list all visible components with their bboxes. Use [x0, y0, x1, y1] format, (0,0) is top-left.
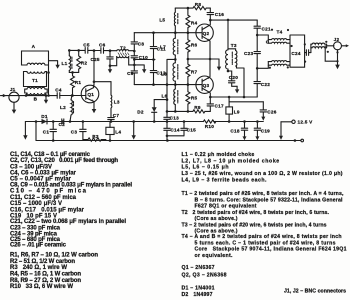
inductor L6: [162, 85, 178, 113]
svg-text:Core Stackpole 57 9074-11, I: Core Stackpole 57 9074-11, Indiana Gener…: [195, 247, 347, 253]
svg-text:L1 – 0.22 μh molded choke: L1 – 0.22 μh molded choke: [182, 152, 255, 158]
svg-text:L4, L9 – 3 ferrite beads each.: L4, L9 – 3 ferrite beads each.: [182, 177, 268, 183]
svg-text:T3 – 2 twisted pairs of #20 wi: T3 – 2 twisted pairs of #20 wire, 6 twis…: [182, 223, 327, 229]
svg-text:R2: R2: [81, 61, 88, 66]
capacitor C18: [230, 120, 247, 140]
svg-text:C8: C8: [138, 41, 145, 46]
transistor Q2: [196, 20, 213, 59]
transformer T2: [110, 45, 134, 65]
ground (C26 to feed): [261, 117, 265, 121]
transistor Q3: [196, 59, 213, 97]
svg-text:C6: C6: [99, 42, 106, 47]
capacitor C5: [79, 43, 94, 54]
wire (Q2 base line): [134, 32, 202, 34]
capacitor C22: [254, 68, 270, 97]
capacitor C15: [181, 120, 196, 136]
wire (bias step to choke rail): [167, 59, 175, 84]
svg-text:12.5 V: 12.5 V: [298, 120, 314, 125]
svg-text:A: A: [32, 44, 36, 49]
svg-text:D1: D1: [41, 114, 48, 119]
svg-text:D2: D2: [137, 109, 144, 114]
terminal (bus end): [294, 139, 304, 142]
connector J1: [1, 87, 20, 102]
svg-text:C14: C14: [170, 128, 179, 133]
wire (+12.5V feed line): [25, 121, 263, 123]
svg-text:Q1: Q1: [87, 92, 94, 97]
svg-text:R8, R9 – 27 Ω, 2 W carbon: R8, R9 – 27 Ω, 2 W carbon: [10, 278, 81, 284]
ground (mid feed): [132, 120, 136, 139]
svg-text:J2: J2: [334, 37, 340, 42]
inductor L8: [161, 59, 178, 85]
supply terminal 12.5 V: [279, 120, 313, 140]
wire (L9 feeder): [229, 97, 263, 102]
svg-text:L3: L3: [114, 100, 120, 105]
wire (bias rail): [166, 85, 168, 118]
inductor L2: [60, 94, 74, 123]
svg-text:L5, L6 – 0.15 μh: L5, L6 – 0.15 μh: [182, 165, 229, 171]
svg-text:B: B: [34, 97, 38, 102]
svg-text:D1 – 1N4001: D1 – 1N4001: [182, 286, 215, 292]
svg-text:C26: C26: [267, 110, 276, 115]
svg-text:C15 – 1000 μF/3 V: C15 – 1000 μF/3 V: [10, 201, 62, 207]
svg-text:R8: R8: [195, 2, 202, 7]
ground bus (bottom): [36, 140, 295, 142]
svg-text:L2: L2: [60, 105, 66, 110]
svg-text:5 turns each. C – 1 twisted p: 5 turns each. C – 1 twisted pair of #24 …: [195, 240, 336, 246]
svg-text:R5: R5: [191, 96, 198, 101]
svg-text:R10 33 Ω, 6 W wire W: R10 33 Ω, 6 W wire W: [10, 284, 73, 290]
wire (Q1 collector): [94, 51, 111, 85]
svg-text:Q2, Q3 – 2N6368: Q2, Q3 – 2N6368: [182, 273, 227, 279]
wire (L1/R2 top and bottom ties): [69, 50, 78, 72]
svg-text:Q2: Q2: [203, 31, 210, 36]
wire (T3 drop rail): [227, 20, 229, 50]
svg-text:T4: T4: [277, 30, 283, 35]
capacitor C1: [43, 120, 57, 142]
svg-text:C1: C1: [43, 129, 50, 134]
resistor R7: [186, 59, 198, 86]
svg-text:Q3: Q3: [203, 83, 210, 88]
ground (C10/C9 tap): [134, 65, 146, 73]
inductor T4-C output winding: [311, 41, 334, 53]
ground (C25/T2): [108, 64, 112, 73]
svg-text:C3 – 100 μF/3V: C3 – 100 μF/3V: [10, 164, 52, 170]
ground (feed line left end): [23, 122, 27, 140]
transformer T4: [257, 29, 306, 69]
capacitor C21: [254, 20, 271, 35]
svg-text:C8, C9 – 0.015 and 0.033 μF my: C8, C9 – 0.015 and 0.033 μF mylars in pa…: [10, 183, 132, 189]
svg-text:C21: C21: [262, 26, 271, 31]
resistor R9: [193, 105, 210, 113]
ground (A rail tap): [49, 61, 60, 69]
wire (left drop to bus): [35, 122, 37, 141]
ferrite bead choke L4: [106, 122, 122, 142]
svg-text:C26 – .01 μF ceramic: C26 – .01 μF ceramic: [10, 243, 67, 249]
ground (J1): [12, 102, 17, 114]
svg-text:T3: T3: [231, 43, 237, 48]
wire (Q3 base line): [134, 84, 202, 86]
capacitor C7: [108, 113, 120, 123]
wire (input line): [9, 95, 57, 97]
svg-text:R1: R1: [75, 80, 82, 85]
capacitor C14: [164, 122, 180, 136]
svg-text:C10 – 470 pF mica: C10 – 470 pF mica: [10, 189, 87, 195]
resistor R1: [71, 72, 82, 96]
resistor R2: [77, 50, 88, 72]
wire (bias mid tie): [134, 59, 155, 61]
svg-text:R1, R6, R7 – 10 Ω, 1/2 W carbo: R1, R6, R7 – 10 Ω, 1/2 W carbon: [10, 252, 98, 258]
svg-text:R4, R5 – 16 Ω, 1 W carbon: R4, R5 – 16 Ω, 1 W carbon: [10, 272, 81, 278]
capacitor C8: [131, 33, 144, 51]
svg-text:C21, C22 – two 0.068 μF mylars: C21, C22 – two 0.068 μF mylars in parall…: [10, 219, 126, 225]
svg-text:L1: L1: [62, 61, 68, 66]
wire (lower emitter/bias line): [167, 110, 193, 112]
capacitor C25: [90, 49, 113, 65]
svg-text:(Core as above.): (Core as above.): [195, 216, 238, 222]
wire (snubber top link): [210, 19, 257, 21]
svg-text:L3 – 25 t, #26 wire, wound on: L3 – 25 t, #26 wire, wound on a 100 Ω, 2…: [182, 171, 343, 177]
svg-text:T4 – A and B = 2 twisted pairs: T4 – A and B = 2 twisted pairs of #24 wi…: [182, 234, 342, 240]
capacitor C4: [55, 88, 72, 99]
svg-text:R10: R10: [205, 124, 214, 129]
resistor R4: [186, 7, 198, 34]
transistor Q1: [81, 85, 99, 103]
svg-text:or equivalent.: or equivalent.: [195, 253, 234, 259]
capacitor C12: [150, 60, 166, 86]
svg-text:R6: R6: [191, 43, 198, 48]
svg-text:B – 8 turns. Core: Stackpole: B – 8 turns. Core: Stackpole 57 9322-11,…: [195, 197, 344, 203]
transformer T1 winding B: [25, 87, 48, 101]
svg-text:L2, L7, L8 – 10 μh molded chok: L2, L7, L8 – 10 μh molded choke: [182, 158, 280, 164]
diode D1: [41, 114, 48, 124]
ferrite bead choke L9: [226, 102, 240, 123]
wire (T1 right rail): [48, 51, 50, 96]
capacitor C13: [164, 115, 179, 122]
svg-text:R9: R9: [194, 105, 201, 110]
ground (Q1 emitter): [92, 101, 97, 113]
resistor R5: [186, 85, 198, 113]
svg-text:R2 – 51 Ω, 1/2 W carbon: R2 – 51 Ω, 1/2 W carbon: [10, 259, 75, 265]
svg-text:F627 8Q1 or equivalent: F627 8Q1 or equivalent: [195, 204, 257, 210]
svg-text:Q1 – 2N6367: Q1 – 2N6367: [182, 265, 215, 271]
transformer T1 winding A loop: [22, 44, 49, 65]
capacitor C17: [207, 96, 224, 112]
ground (T1 B right): [44, 96, 48, 104]
svg-text:R3 240 Ω, 1 wire W: R3 240 Ω, 1 wire W: [10, 265, 67, 271]
svg-text:C22: C22: [261, 82, 270, 87]
capacitor C23: [244, 34, 260, 70]
svg-text:C13: C13: [170, 115, 179, 120]
svg-text:T1 – 2 twisted pairs of #26 wi: T1 – 2 twisted pairs of #26 wire, 8 twis…: [182, 191, 345, 197]
svg-text:J1, J2 – BNC connectors: J1, J2 – BNC connectors: [284, 288, 346, 294]
ground (J2): [325, 46, 340, 70]
svg-text:L9: L9: [234, 109, 240, 114]
ground (C20): [235, 86, 239, 93]
svg-text:C18: C18: [230, 129, 239, 134]
capacitor C16: [207, 8, 224, 21]
svg-text:C25: C25: [90, 57, 99, 62]
svg-text:L8: L8: [161, 71, 167, 76]
transformer T3: [226, 43, 246, 98]
svg-text:L5: L5: [159, 18, 165, 23]
svg-text:R7: R7: [191, 70, 198, 75]
capacitor C19: [254, 120, 270, 140]
transformer T1 primary winding: [24, 72, 47, 87]
svg-text:C5: C5: [83, 43, 90, 48]
wire (Q3 collector link): [210, 96, 257, 98]
svg-text:C23: C23: [244, 51, 253, 56]
connector J2: [334, 37, 350, 50]
resistor R8: [175, 2, 210, 10]
svg-text:C1, C14, C18 – 0.1 μF ceramic: C1, C14, C18 – 0.1 μF ceramic: [10, 152, 91, 158]
diode D2: [137, 98, 168, 123]
svg-text:L4: L4: [115, 129, 121, 134]
svg-text:T2 2 twisted pairs of #24 wi: T2 2 twisted pairs of #24 wire, 8 twists…: [182, 210, 330, 216]
resistor R3: [83, 134, 106, 142]
wire (C14/C15 tie to bus): [167, 136, 184, 141]
svg-text:C3: C3: [71, 129, 78, 134]
svg-text:C17: C17: [215, 103, 224, 108]
svg-text:C20: C20: [229, 75, 238, 80]
capacitor C11: [150, 31, 166, 60]
ground (Q2/Q3 emitters): [217, 59, 221, 71]
svg-text:D2 1N4997: D2 1N4997: [182, 292, 213, 298]
svg-text:C15: C15: [187, 128, 196, 133]
svg-text:C4: C4: [55, 88, 62, 93]
inductor L3: [111, 82, 120, 116]
node (T1 rail junctions): [47, 71, 50, 74]
inductor L5: [159, 8, 177, 33]
capacitor C24: [291, 50, 311, 56]
svg-text:R4: R4: [191, 20, 198, 25]
svg-text:C16: C16: [215, 12, 224, 17]
capacitor C2 (feedthrough): [59, 119, 66, 127]
wire (base lead): [73, 95, 86, 97]
capacitor C9: [127, 58, 137, 84]
capacitor C10: [131, 50, 148, 61]
capacitor C6: [94, 42, 110, 53]
resistor R10: [203, 120, 216, 129]
inductor L7: [160, 31, 178, 60]
svg-text:L7: L7: [160, 44, 166, 49]
TEXTBLOCK: [10, 152, 347, 298]
capacitor C3: [71, 120, 86, 139]
svg-text:C19: C19: [261, 129, 270, 134]
svg-text:C24: C24: [291, 51, 300, 56]
capacitor C20: [228, 71, 238, 86]
inductor L1: [62, 50, 72, 72]
resistor R6: [186, 33, 198, 61]
svg-text:C5 – 0.0047 μF mylar: C5 – 0.0047 μF mylar: [10, 176, 72, 182]
capacitor C26: [260, 102, 277, 117]
svg-text:T1: T1: [32, 78, 38, 83]
wire (emitter tie): [188, 58, 219, 60]
svg-text:C2, C7, C13, C20 0.001 μF fe: C2, C7, C13, C20 0.001 μF feed through: [10, 158, 118, 164]
svg-text:J1: J1: [10, 87, 16, 92]
